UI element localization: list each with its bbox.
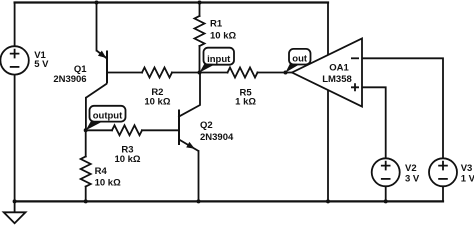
resistor R5 zigzag [228, 68, 258, 78]
svg-text:2N3906: 2N3906 [53, 74, 86, 85]
wire V1 bottom to rail [14, 75, 16, 202]
wire op-amp inverting input to V3 [362, 58, 443, 158]
wire V2 bottom to rail [385, 186, 387, 201]
resistor R4 zigzag [81, 157, 91, 187]
voltage source V2 [372, 158, 400, 186]
label R2 10 kOhm [144, 87, 170, 107]
wire V1 top [14, 3, 16, 47]
svg-text:Q2: Q2 [200, 120, 213, 131]
label OA1 LM358 [322, 63, 352, 85]
wire Q2 collector from input node [179, 73, 200, 117]
svg-text:R4: R4 [95, 166, 108, 177]
wire top rail [15, 1, 328, 3]
svg-text:5 V: 5 V [34, 59, 49, 70]
transistor Q1 2N3906 [86, 51, 107, 98]
label V2 3 V [405, 163, 420, 184]
svg-text:input: input [207, 54, 231, 65]
node dot R4 bottom [84, 199, 88, 203]
node flag out [286, 49, 311, 73]
svg-text:LM358: LM358 [322, 74, 352, 85]
node dot output [84, 128, 88, 132]
svg-text:R1: R1 [210, 19, 223, 30]
node dot op-amp V- bottom [326, 199, 330, 203]
label R3 10 kOhm [114, 145, 140, 165]
node flag output [86, 106, 126, 131]
wire Q1 base to R2 [108, 72, 142, 74]
wire Q2 emitter to rail [198, 151, 200, 201]
svg-text:10 kΩ: 10 kΩ [144, 96, 170, 107]
wire R1 top stub [199, 3, 201, 17]
svg-text:3 V: 3 V [405, 173, 420, 184]
transistor Q2 2N3904 [179, 110, 199, 152]
node dot V2 bottom [384, 199, 388, 203]
ground [4, 201, 26, 223]
svg-text:1 kΩ: 1 kΩ [235, 97, 256, 108]
resistor R4 labels [95, 166, 121, 188]
label R1 10 kOhm [210, 19, 236, 42]
svg-text:1 V: 1 V [461, 173, 474, 184]
label Q1 2N3906 [53, 64, 87, 85]
wire R2 to input node [172, 72, 200, 74]
svg-text:out: out [292, 53, 308, 64]
wire Q1 collector vertical [85, 98, 87, 131]
label V3 1 V [461, 163, 474, 184]
resistor R2 zigzag [142, 68, 172, 78]
node dot Q2 emitter bottom [197, 199, 201, 203]
node dot input [198, 71, 202, 75]
wire R5 to out node and op-amp [258, 72, 293, 74]
wire op-amp V+ supply from top rail [327, 3, 329, 56]
node dot bottom-left corner [13, 199, 17, 203]
svg-text:10 kΩ: 10 kΩ [114, 154, 140, 165]
wire op-amp V- supply to bottom rail [327, 90, 329, 201]
svg-text:10 kΩ: 10 kΩ [210, 30, 236, 41]
wire R4 bottom to rail [85, 187, 87, 202]
wire op-amp non-inverting input to V2 [362, 87, 386, 158]
node dot top rail / Q1 emitter [95, 1, 99, 5]
label V1 5 V [34, 50, 49, 70]
svg-text:2N3904: 2N3904 [200, 132, 234, 143]
resistor R3 zigzag [112, 125, 142, 135]
voltage source V1 [0, 46, 28, 74]
wire output node to R3 [86, 129, 112, 131]
wire bottom rail [15, 200, 443, 202]
label Q2 2N3904 [200, 120, 234, 143]
wire input node to R5 [200, 72, 228, 74]
svg-text:output: output [93, 110, 123, 121]
wire R3 to Q2 base [142, 129, 178, 131]
node dot out [284, 71, 288, 75]
svg-text:10 kΩ: 10 kΩ [95, 177, 121, 188]
label R5 1 kOhm [235, 87, 256, 107]
wire output node down to R4 [85, 130, 87, 156]
wire R1 bottom to input node [199, 46, 201, 73]
wire V3 bottom to rail [442, 186, 444, 201]
node flag input [200, 48, 235, 73]
wire Q1 emitter from rail [96, 3, 98, 51]
resistor R1 zigzag [195, 16, 205, 46]
node dot top rail / R1 [198, 1, 202, 5]
op-amp OA1 LM358 [292, 39, 362, 107]
svg-text:OA1: OA1 [329, 63, 349, 74]
voltage source V3 [429, 158, 457, 186]
